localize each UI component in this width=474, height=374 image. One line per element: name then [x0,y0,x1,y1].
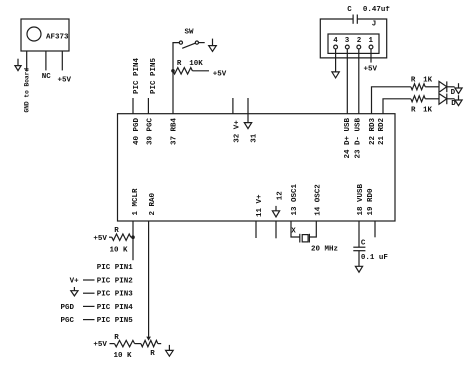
svg-text:11 V+: 11 V+ [256,194,264,217]
svg-text:PGD: PGD [61,304,75,312]
svg-text:R: R [114,334,119,342]
svg-text:R: R [411,107,416,115]
svg-text:32 V+: 32 V+ [234,120,242,143]
svg-text:10K: 10K [189,60,203,68]
svg-text:D: D [451,89,456,97]
svg-text:PIC PIN4: PIC PIN4 [133,57,141,94]
svg-text:37 RB4: 37 RB4 [170,117,178,145]
svg-text:V+: V+ [70,278,80,286]
svg-text:1 MCLR: 1 MCLR [132,188,140,216]
svg-text:3: 3 [345,37,350,45]
svg-text:NC: NC [42,73,52,81]
svg-text:PIC PIN3: PIC PIN3 [97,291,134,299]
svg-text:J: J [372,21,377,29]
svg-text:PIC PIN5: PIC PIN5 [150,57,158,94]
svg-text:13 OSC1: 13 OSC1 [291,183,299,215]
svg-text:0.1 uF: 0.1 uF [361,254,389,262]
svg-text:GND to Board: GND to Board [24,68,31,113]
svg-text:23 D- USB: 23 D- USB [355,117,363,158]
svg-text:PIC PIN1: PIC PIN1 [97,264,134,272]
svg-text:14 OSC2: 14 OSC2 [315,184,323,216]
svg-text:SW: SW [185,29,195,37]
svg-text:PIC PIN2: PIC PIN2 [97,277,134,285]
svg-text:40 PGD: 40 PGD [133,117,141,145]
svg-text:24 D+ USB: 24 D+ USB [344,117,352,158]
svg-text:1: 1 [369,37,374,45]
svg-text:+5V: +5V [213,71,227,79]
svg-text:C: C [361,239,366,247]
svg-text:2 RA0: 2 RA0 [149,192,157,215]
svg-text:21 RD2: 21 RD2 [378,117,386,145]
svg-text:+5V: +5V [58,76,72,84]
svg-text:PGC: PGC [61,317,75,325]
svg-text:+5V: +5V [364,66,378,74]
svg-text:0.47uf: 0.47uf [363,6,391,14]
svg-text:31: 31 [251,133,259,143]
svg-text:+5V: +5V [93,235,107,243]
svg-text:20 MHz: 20 MHz [311,245,338,253]
svg-text:10 K: 10 K [114,352,133,360]
svg-text:R: R [177,60,182,68]
svg-text:C: C [347,6,352,14]
svg-text:18 VUSB: 18 VUSB [357,183,365,215]
svg-text:R: R [114,227,119,235]
svg-text:R: R [411,77,416,85]
svg-text:R: R [150,350,155,358]
svg-text:2: 2 [357,37,362,45]
svg-text:PIC PIN4: PIC PIN4 [97,304,134,312]
svg-text:10 K: 10 K [110,246,129,254]
svg-text:4: 4 [333,37,338,45]
svg-text:1K: 1K [423,77,433,85]
svg-text:39 PGC: 39 PGC [147,117,155,145]
svg-text:22 RD3: 22 RD3 [369,117,377,145]
svg-text:1K: 1K [423,107,433,115]
svg-text:PIC PIN5: PIC PIN5 [97,317,134,325]
svg-text:+5V: +5V [93,341,107,349]
svg-text:12: 12 [277,191,285,201]
svg-text:X: X [291,228,296,236]
svg-text:D: D [451,100,456,108]
svg-text:19 RD0: 19 RD0 [367,188,375,216]
svg-text:AF373: AF373 [46,34,69,42]
